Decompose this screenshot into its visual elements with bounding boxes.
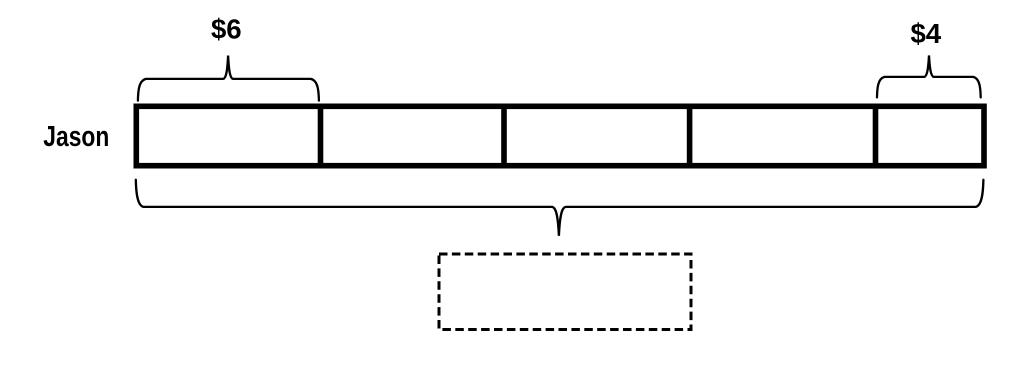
svg-text:$6: $6: [211, 13, 242, 44]
divider 2: [501, 104, 507, 169]
bar outline (Jason's tape diagram): [136, 106, 984, 165]
divider 4: [873, 104, 879, 169]
divider 3: [687, 104, 693, 169]
brace for $4 (over last short unit): [877, 56, 981, 98]
brace for $6 (over first unit): [138, 56, 319, 101]
svg-text:Jason: Jason: [43, 121, 109, 153]
divider 1: [318, 104, 324, 169]
dashed answer box: [439, 254, 691, 330]
under-brace (whole bar total): [136, 180, 984, 236]
svg-text:$4: $4: [910, 18, 941, 49]
